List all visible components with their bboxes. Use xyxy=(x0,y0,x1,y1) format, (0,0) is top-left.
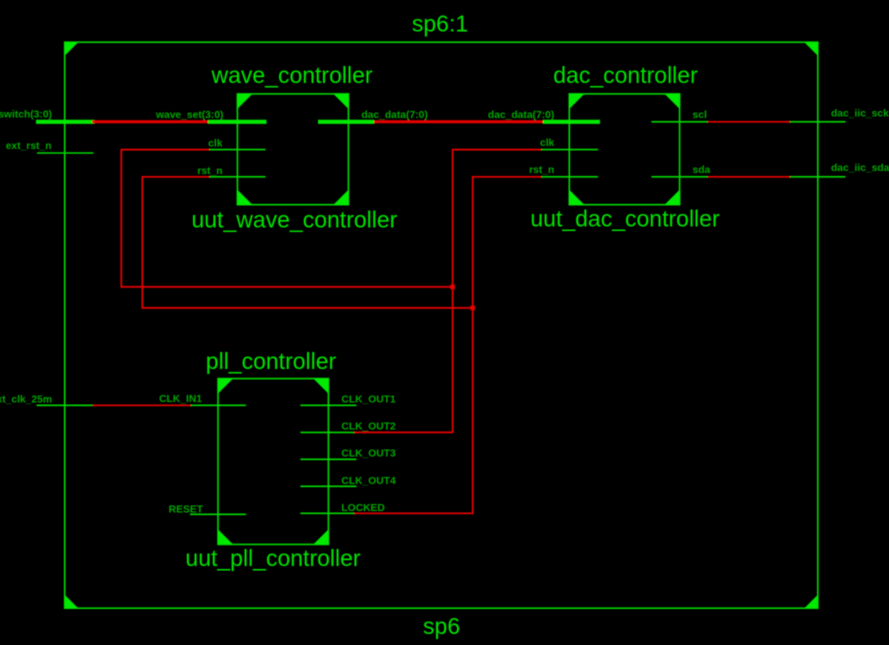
svg-text:LOCKED: LOCKED xyxy=(341,503,384,514)
svg-text:sp6: sp6 xyxy=(423,613,460,639)
svg-text:pll_controller: pll_controller xyxy=(206,348,337,374)
svg-text:uut_pll_controller: uut_pll_controller xyxy=(185,545,361,571)
svg-text:uut_wave_controller: uut_wave_controller xyxy=(191,207,397,233)
svg-text:dac_data(7:0): dac_data(7:0) xyxy=(361,110,427,121)
svg-text:RESET: RESET xyxy=(169,505,204,516)
svg-text:clk: clk xyxy=(208,139,223,150)
svg-text:CLK_OUT3: CLK_OUT3 xyxy=(341,449,396,460)
svg-text:ext_clk_25m: ext_clk_25m xyxy=(0,395,52,406)
svg-text:switch(3:0): switch(3:0) xyxy=(0,110,52,121)
svg-text:wave_controller: wave_controller xyxy=(210,62,372,88)
svg-text:CLK_OUT2: CLK_OUT2 xyxy=(341,422,396,433)
svg-text:dac_iic_sda: dac_iic_sda xyxy=(831,163,889,174)
svg-text:CLK_OUT4: CLK_OUT4 xyxy=(341,476,396,487)
svg-text:rst_n: rst_n xyxy=(197,166,222,177)
svg-text:ext_rst_n: ext_rst_n xyxy=(6,141,52,152)
svg-text:rst_n: rst_n xyxy=(529,165,554,176)
svg-text:CLK_OUT1: CLK_OUT1 xyxy=(341,395,396,406)
svg-text:uut_dac_controller: uut_dac_controller xyxy=(530,206,720,232)
svg-text:sda: sda xyxy=(693,165,711,176)
svg-text:dac_data(7:0): dac_data(7:0) xyxy=(488,110,554,121)
svg-text:CLK_IN1: CLK_IN1 xyxy=(159,394,202,405)
svg-text:scl: scl xyxy=(693,110,707,121)
svg-text:clk: clk xyxy=(540,138,555,149)
svg-text:dac_iic_sck: dac_iic_sck xyxy=(831,109,889,120)
svg-text:sp6:1: sp6:1 xyxy=(412,11,468,37)
svg-text:wave_set(3:0): wave_set(3:0) xyxy=(155,110,224,121)
svg-text:dac_controller: dac_controller xyxy=(553,62,698,88)
